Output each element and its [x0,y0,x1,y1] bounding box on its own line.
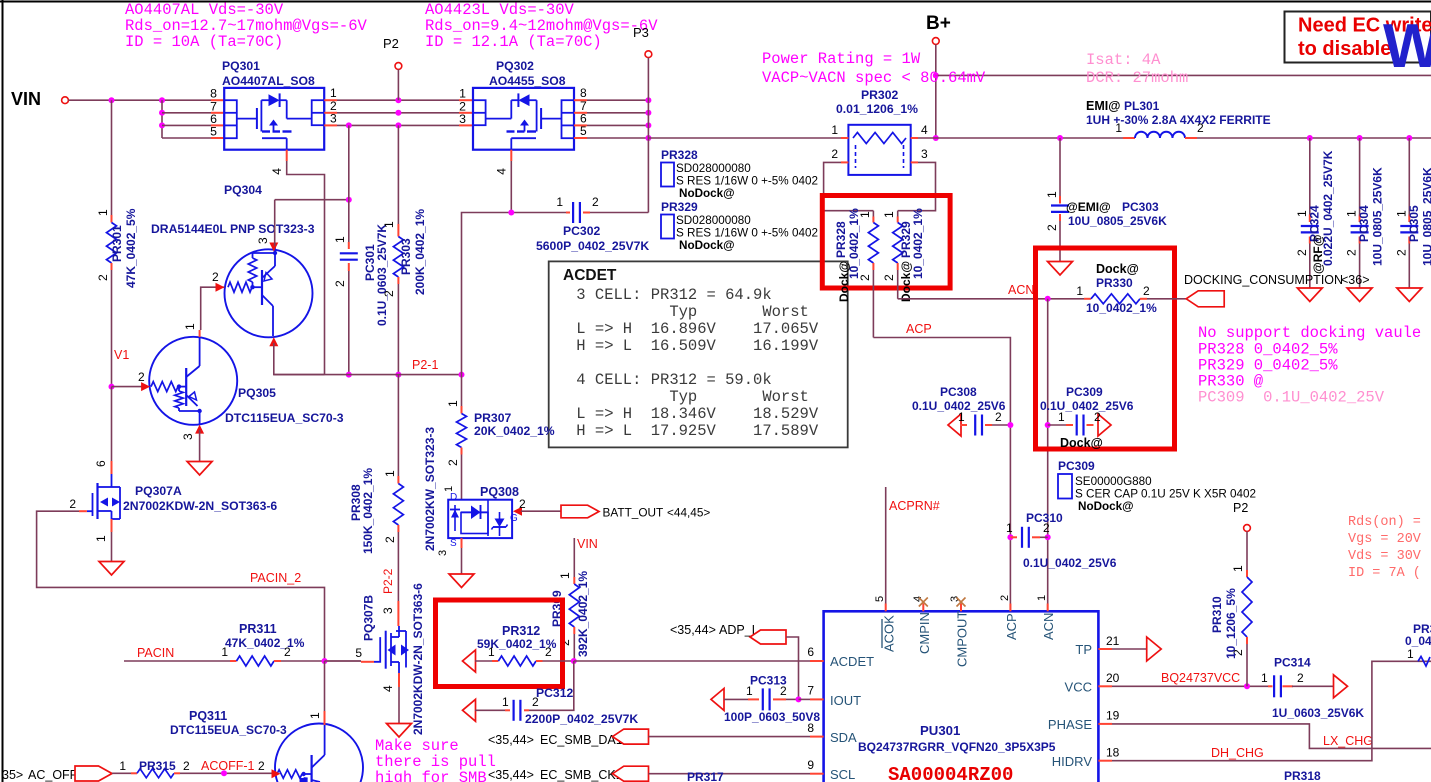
svg-text:TP: TP [1075,642,1092,657]
svg-text:PR312: PR312 [502,624,540,638]
svg-text:100P_0603_50V8: 100P_0603_50V8 [724,710,820,724]
svg-text:DRA5144E0L PNP SOT323-3: DRA5144E0L PNP SOT323-3 [151,222,315,236]
svg-text:1: 1 [1115,121,1122,135]
svg-text:5: 5 [210,125,217,139]
svg-text:9: 9 [807,758,814,772]
svg-text:PR315: PR315 [139,759,176,773]
svg-text:10U_0805_25V6K: 10U_0805_25V6K [1420,167,1431,266]
svg-text:10_0402_1%: 10_0402_1% [911,208,925,279]
svg-text:2: 2 [1295,249,1309,256]
svg-text:Typ Worst: Typ Worst [567,303,809,321]
svg-text:35>: 35> [2,768,23,782]
svg-text:PL301: PL301 [1124,99,1160,113]
svg-text:PHASE: PHASE [1048,717,1092,732]
wire PQ305 pin3 to ground [199,430,201,461]
svg-text:VIN: VIN [11,89,41,109]
wire PQ304 pin1 to P2-1 bus [274,343,325,375]
testpoint arrow TP [1147,637,1162,661]
svg-text:PC308: PC308 [940,385,977,399]
svg-text:<35,44>: <35,44> [670,623,716,637]
pin1 stub PQ305 collector [199,330,201,337]
svg-text:H => L 17.925V 17.589V: H => L 17.925V 17.589V [567,422,819,440]
pin3 stub PQ307B drain [397,601,399,626]
highlight box PR312 [436,600,563,687]
svg-text:150K_0402_1%: 150K_0402_1% [361,468,375,554]
pin2 stub PQ307A gate [79,510,87,512]
wire PQ304 pin2 link from PQ305 collector [201,287,225,330]
capacitor PC324 0.022U_0402_25V7K [1309,138,1311,215]
svg-text:1: 1 [221,645,228,659]
svg-text:2: 2 [1043,521,1050,535]
resistor PR301 47K_0402_5% [111,100,113,215]
junction PACIN/PQ311 [322,658,328,664]
wire net DH_CHG from HIDRV [1112,661,1431,760]
svg-text:ADP_I: ADP_I [719,623,755,637]
resistor PR310 10_1206_5% [1246,531,1248,570]
svg-text:PQ307B: PQ307B [362,595,376,641]
capacitor PC303 10U_0805_25V6K [1059,138,1061,196]
svg-text:2200P_0402_25V7K: 2200P_0402_25V7K [525,712,638,726]
no-connect X CMPOUT [957,598,966,607]
svg-text:EC_SMB_CK1: EC_SMB_CK1 [540,768,623,782]
svg-text:VIN: VIN [577,537,598,551]
wire PQ302 pin4 down to PC302 row [510,161,512,213]
wire main B+ bus [648,137,841,139]
svg-text:SD028000080: SD028000080 [676,162,751,175]
pin1 arrow PQ304 [269,337,278,346]
svg-text:VACP~VACN spec < 80.64mV: VACP~VACN spec < 80.64mV [762,69,986,87]
wire P2-1 bus [274,374,462,376]
svg-text:2: 2 [1197,121,1204,135]
svg-text:1: 1 [1076,284,1083,298]
svg-text:1: 1 [308,712,322,719]
wire EC_SMB_DA1 to SDA [649,736,811,738]
pin stubs PQ301 left pins 8 7 6 5 [211,99,224,101]
svg-text:ACOFF-1: ACOFF-1 [201,759,255,773]
svg-text:2: 2 [1297,671,1304,685]
svg-text:CMPIN: CMPIN [917,612,932,654]
svg-text:PR317: PR317 [687,770,724,782]
resistor PR315 [112,772,131,774]
svg-text:EC_SMB_DA1: EC_SMB_DA1 [540,733,623,747]
svg-text:@RF@: @RF@ [1311,235,1325,274]
svg-text:DTC115EUA_SC70-3: DTC115EUA_SC70-3 [225,411,344,425]
svg-text:2: 2 [995,410,1002,424]
svg-text:G: G [510,513,518,524]
svg-text:10U_0805_25V6K: 10U_0805_25V6K [1371,167,1385,266]
pin2 arrow PQ311 [272,769,281,778]
svg-text:10_0402_1%: 10_0402_1% [1086,301,1157,315]
wire PC302 row corner [462,213,567,375]
PQ304 internals [228,282,252,292]
svg-text:2: 2 [1345,249,1359,256]
ground under PC303 [1048,262,1073,276]
svg-text:2N7002KDW-2N_SOT363-6: 2N7002KDW-2N_SOT363-6 [123,499,277,513]
svg-text:P3: P3 [633,25,649,40]
ground under PQ305 [187,462,212,476]
svg-text:@EMI@: @EMI@ [1066,200,1111,214]
svg-text:1: 1 [382,221,396,228]
svg-text:0.01_1206_1%: 0.01_1206_1% [836,102,918,116]
wire PQ311 pin1 from PACIN junction [324,661,326,711]
pin3 stub PQ308 to ground [461,538,463,548]
svg-text:3: 3 [256,237,270,244]
svg-text:NoDock@: NoDock@ [1078,500,1134,513]
wire PQ304 pin3 from PC301 row [274,200,276,246]
svg-text:AO4455_SO8: AO4455_SO8 [489,74,566,88]
svg-text:ACP: ACP [906,322,932,336]
wire net ACN [898,298,1084,300]
svg-text:PR307: PR307 [474,411,511,425]
wire PR302 pin3 to PR329 [898,162,936,210]
svg-text:B+: B+ [926,13,951,34]
ground under PC304 [1347,288,1372,302]
svg-text:ACPRN#: ACPRN# [889,499,940,513]
svg-text:PC314: PC314 [1274,656,1311,670]
pin2 arrow PQ308 [513,507,522,516]
svg-text:PQ308: PQ308 [480,485,519,499]
svg-text:PQ301: PQ301 [222,59,260,73]
svg-text:1: 1 [1058,410,1065,424]
svg-text:2: 2 [96,274,110,281]
svg-text:0.1U_0603_25V7K: 0.1U_0603_25V7K [375,224,389,326]
svg-text:L => H 18.346V 18.529V: L => H 18.346V 18.529V [567,405,819,423]
svg-text:PC305: PC305 [1407,205,1421,242]
svg-text:4 CELL: PR312 = 59.0k: 4 CELL: PR312 = 59.0k [567,371,772,389]
svg-text:SCL: SCL [830,767,855,782]
ground under PC324 [1297,288,1322,302]
svg-text:HIDRV: HIDRV [1052,754,1093,769]
connector BATT_OUT [561,505,599,518]
svg-text:Isat: 4A: Isat: 4A [1086,51,1161,69]
wire EC_SMB_CK1 to SCL [649,773,811,775]
svg-text:1: 1 [882,211,896,218]
svg-text:SE00000G880: SE00000G880 [1075,475,1152,488]
svg-text:1: 1 [502,695,509,709]
wire TP pin21 to test arrow [1112,648,1147,650]
svg-text:47K_0402_1%: 47K_0402_1% [225,636,305,650]
svg-text:2N7002KDW-2N_SOT363-6: 2N7002KDW-2N_SOT363-6 [411,583,425,735]
svg-text:<36>: <36> [1341,273,1370,287]
pin stubs PU301 top [885,604,887,612]
svg-text:2: 2 [138,370,145,384]
pin3 arrow PQ304 [269,243,278,252]
svg-text:10_1206_5%: 10_1206_5% [1224,588,1238,659]
svg-text:H => L 16.509V 16.199V: H => L 16.509V 16.199V [567,337,819,355]
svg-text:1: 1 [183,323,197,330]
junction VIN fanout [159,97,165,103]
highlight box Dock PR330 PC309 [1036,248,1175,449]
svg-text:PQ302: PQ302 [496,59,534,73]
svg-text:6: 6 [94,460,108,467]
svg-text:21: 21 [1106,634,1120,648]
connector DOCKING_CONSUMPTION [1186,291,1224,307]
svg-text:PR311: PR311 [239,622,277,636]
svg-text:S: S [450,538,457,549]
svg-text:1: 1 [746,684,753,698]
wire V1 to PQ305 base [112,386,145,388]
wire P2 column [397,69,399,100]
svg-text:AC_OFF: AC_OFF [28,768,78,782]
svg-text:S RES 1/16W 0 +-5% 0402: S RES 1/16W 0 +-5% 0402 [676,227,818,240]
note Need EC write box [1285,12,1431,63]
svg-text:2: 2 [284,645,291,659]
resistor PR303 200K_0402_1% [397,224,399,237]
svg-text:DTC115EUA_SC70-3: DTC115EUA_SC70-3 [170,723,287,737]
svg-text:4: 4 [495,168,509,175]
svg-text:Vgs = 20V: Vgs = 20V [1348,532,1429,547]
wire ACN column [1047,299,1049,612]
sheet frame left border [2,0,4,782]
svg-text:1: 1 [958,410,965,424]
svg-text:VCC: VCC [1065,680,1092,695]
resistor PR309 392K_0402_1% [573,538,575,577]
svg-text:Vds = 30V: Vds = 30V [1348,549,1429,564]
svg-text:P2-2: P2-2 [381,568,395,594]
svg-text:<44,45>: <44,45> [667,506,710,520]
wire VIN to PQ301 pin8 [68,99,211,101]
svg-text:L => H 16.896V 17.065V: L => H 16.896V 17.065V [567,320,819,338]
svg-text:PR301: PR301 [110,225,124,262]
svg-text:2: 2 [592,195,599,209]
wire PQ302 right rows to P3 col [587,99,648,101]
ground under PQ307B [387,724,412,738]
svg-text:4: 4 [921,123,928,137]
svg-text:2: 2 [333,280,347,287]
wire net ACPRN# to ACOK pin5 [885,487,887,604]
capacitor PC305 10U_0805_25V6K [1408,138,1410,215]
svg-text:6: 6 [807,645,814,659]
svg-text:2: 2 [519,497,526,511]
wire B+ bus right section [1197,137,1431,139]
svg-text:1: 1 [96,209,110,216]
svg-text:Rds(on) =: Rds(on) = [1348,515,1429,530]
wire ADP_I to IOUT [786,637,799,699]
svg-text:DH_CHG: DH_CHG [1211,746,1264,760]
IC PU301 BQ24737RGRR [824,611,1099,782]
svg-text:1: 1 [383,470,397,477]
svg-text:<35,44>: <35,44> [488,768,534,782]
svg-text:1: 1 [446,400,460,407]
svg-text:200K_0402_1%: 200K_0402_1% [413,209,427,295]
svg-text:5: 5 [580,124,587,138]
wire PQ301 pin4 to P2-1 bus [287,161,325,375]
svg-text:2: 2 [183,759,190,773]
pin3 arrow PQ305 [195,425,204,434]
svg-text:PR310: PR310 [1210,596,1224,633]
svg-text:3: 3 [330,111,337,125]
svg-text:PACIN: PACIN [137,646,174,660]
wire B+ bus PR302 to PL301 [918,137,1123,139]
svg-text:ACDET: ACDET [830,654,874,669]
svg-text:D: D [450,492,457,503]
svg-text:<35,44>: <35,44> [488,733,534,747]
svg-text:1: 1 [1045,191,1059,198]
ground under PQ308 [449,574,474,588]
table box ACDET [549,261,848,447]
svg-text:PC309 0.1U_0402_25V: PC309 0.1U_0402_25V [1198,389,1385,407]
svg-text:LX_CHG: LX_CHG [1323,734,1373,748]
wire net row y75 to right edge [936,74,1431,76]
wire to PU301 ACDET pin [574,660,810,662]
PQ305 internals [151,382,178,392]
svg-text:EMI@: EMI@ [1086,99,1120,113]
svg-text:PU301: PU301 [920,723,960,738]
svg-text:Dock@: Dock@ [837,261,851,302]
pin 4 stub PQ301 [286,150,288,161]
svg-text:ACN: ACN [1041,613,1056,640]
junction PC301 col on pin3 row [346,122,352,128]
svg-text:1: 1 [1231,565,1245,572]
svg-text:2: 2 [780,684,787,698]
svg-text:BATT_OUT: BATT_OUT [603,506,664,520]
svg-text:3: 3 [437,550,449,556]
svg-text:3: 3 [459,112,466,126]
svg-text:Power Rating = 1W: Power Rating = 1W [762,50,921,68]
svg-text:Dock@: Dock@ [899,261,913,302]
svg-text:AO4407AL_SO8: AO4407AL_SO8 [222,74,315,88]
pin stubs PU301 right [1098,648,1112,650]
svg-text:No support docking vaule: No support docking vaule [1198,324,1421,342]
svg-text:NoDock@: NoDock@ [679,187,735,200]
ground under PQ307A [99,562,124,576]
svg-text:1: 1 [333,236,347,243]
svg-text:PC309: PC309 [1066,385,1103,399]
svg-text:1: 1 [1036,595,1048,601]
svg-text:PR303: PR303 [399,238,413,275]
svg-text:392K_0402_1%: 392K_0402_1% [576,571,590,657]
svg-text:5: 5 [874,596,886,602]
svg-text:1: 1 [831,123,838,137]
svg-text:1: 1 [556,195,563,209]
svg-text:PQ307A: PQ307A [135,484,182,498]
svg-text:PQ304: PQ304 [224,183,262,197]
svg-text:IOUT: IOUT [830,693,861,708]
svg-text:0_04: 0_04 [1405,634,1431,648]
svg-text:2: 2 [1394,249,1408,256]
svg-text:Dock@: Dock@ [1096,262,1139,276]
resistor zigzag clipped right edge [1418,657,1430,667]
svg-text:1: 1 [558,572,572,579]
svg-text:W: W [1383,12,1431,81]
svg-text:PACIN_2: PACIN_2 [250,571,301,585]
svg-text:0.1U_0402_25V6: 0.1U_0402_25V6 [1023,556,1117,570]
svg-text:10U_0805_25V6K: 10U_0805_25V6K [1068,214,1167,228]
svg-text:1: 1 [1006,521,1013,535]
svg-text:2: 2 [882,274,896,281]
svg-text:20: 20 [1106,671,1120,685]
svg-text:PQ311: PQ311 [189,709,227,723]
svg-text:BQ24737RGRR_VQFN20_3P5X3P5: BQ24737RGRR_VQFN20_3P5X3P5 [858,740,1056,754]
svg-text:1UH +-30% 2.8A 4X4X2 FERRITE: 1UH +-30% 2.8A 4X4X2 FERRITE [1086,113,1271,127]
wire PR302 pin2 to PR328 [824,162,874,210]
svg-text:P2: P2 [383,36,399,51]
wire fanout column x162 [161,100,163,138]
svg-text:S CER CAP 0.1U 25V K X5R 0402: S CER CAP 0.1U 25V K X5R 0402 [1075,488,1256,501]
svg-text:3: 3 [381,607,395,614]
svg-text:20K_0402_1%: 20K_0402_1% [474,424,555,438]
wire PQ308 pin2 to BATT_OUT [521,510,561,512]
svg-text:2: 2 [1143,284,1150,298]
svg-text:PC304: PC304 [1357,205,1371,242]
svg-text:3: 3 [921,147,928,161]
svg-text:2N7002KW_SOT323-3: 2N7002KW_SOT323-3 [423,427,437,551]
svg-text:2: 2 [1045,224,1059,231]
resistor PR329 10_0402_1% [897,211,899,217]
svg-text:DCR: 27mohm: DCR: 27mohm [1086,69,1188,87]
svg-text:ID = 10A (Ta=70C): ID = 10A (Ta=70C) [125,33,283,51]
svg-text:1: 1 [1407,647,1414,661]
ground under PC305 [1397,288,1422,302]
svg-text:PC303: PC303 [1122,200,1159,214]
svg-text:PR328: PR328 [661,148,698,162]
svg-text:2: 2 [69,497,76,511]
wire net BQ24737VCC [1112,685,1268,687]
pin 4 stub PQ302 [510,150,512,161]
svg-text:2: 2 [545,645,552,659]
pin1 stub PQ307A source [111,519,113,532]
resistor PR328 10_0402_1% [872,211,874,217]
svg-text:19: 19 [1106,709,1120,723]
wire P3 column [647,58,649,213]
svg-text:2: 2 [383,536,397,543]
svg-text:PR330: PR330 [1096,276,1133,290]
svg-text:1: 1 [119,759,126,773]
svg-text:Typ Worst: Typ Worst [567,388,809,406]
svg-text:P2: P2 [1233,501,1248,515]
svg-text:BQ24737VCC: BQ24737VCC [1161,671,1240,685]
wire PACIN to PQ307B gate [325,660,362,662]
svg-text:SD028000080: SD028000080 [676,214,751,227]
svg-text:P2-1: P2-1 [412,358,438,372]
svg-text:2: 2 [999,595,1011,601]
svg-text:ACP: ACP [1004,613,1019,640]
wire rows PQ301 right pins to PQ302 [324,99,337,101]
svg-text:PC309: PC309 [1058,459,1095,473]
svg-text:2: 2 [446,459,460,466]
sheet frame top border [0,1,1431,3]
svg-text:PR328: PR328 [834,221,848,258]
svg-text:2: 2 [212,270,219,284]
junction VIN/PR301 [109,97,115,103]
svg-text:PR329: PR329 [661,200,698,214]
svg-text:2: 2 [382,290,396,297]
svg-text:PR318: PR318 [1284,769,1321,782]
svg-text:ID = 12.1A (Ta=70C): ID = 12.1A (Ta=70C) [425,33,602,51]
capacitor PC301 0.1U_0603_25V7K [348,200,350,242]
svg-text:high for SMB: high for SMB [375,769,487,782]
svg-text:NoDock@: NoDock@ [679,239,735,252]
svg-text:Dock@: Dock@ [1060,436,1103,450]
pin4 stub PQ307B source [398,673,400,687]
svg-text:2: 2 [532,695,539,709]
wire net ACP [873,338,1010,612]
svg-text:PC312: PC312 [536,686,573,700]
testpoint arrow PC314 [1334,675,1348,698]
junction P2 col rows 1-3 [395,97,401,103]
highlight box PR328 PR329 [822,196,950,289]
no-connect X CMPIN [919,598,928,607]
svg-text:1: 1 [488,645,495,659]
svg-text:SDA: SDA [830,730,857,745]
svg-text:V1: V1 [114,348,129,362]
svg-text:ID = 7A (: ID = 7A ( [1348,566,1421,581]
capacitor PC302 5600P_0402_25V7K [566,212,570,214]
wire PC301 column top [348,125,350,199]
svg-text:1: 1 [1261,671,1268,685]
svg-text:5: 5 [355,646,362,660]
svg-text:5600P_0402_25V7K: 5600P_0402_25V7K [536,239,649,253]
